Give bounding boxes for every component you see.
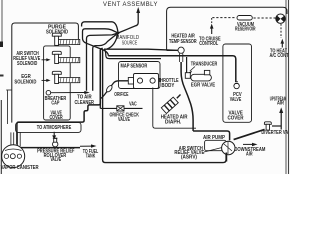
svg-text:SOLENOID: SOLENOID [14,79,36,85]
svg-text:CAP: CAP [51,101,59,107]
svg-text:EGR VALVE: EGR VALVE [191,83,216,89]
svg-text:VALVE: VALVE [118,117,130,123]
svg-text:TEMP SENSOR: TEMP SENSOR [169,39,197,45]
svg-text:VAC: VAC [129,102,137,108]
svg-text:ORIFICE: ORIFICE [114,92,129,98]
svg-text:A/C CONT: A/C CONT [270,53,289,59]
svg-text:DIAPH.: DIAPH. [165,120,182,126]
svg-text:CONTROL: CONTROL [199,41,218,47]
svg-text:TO ATMOSPHERE: TO ATMOSPHERE [37,125,72,131]
svg-text:VENT ASSEMBLY: VENT ASSEMBLY [103,1,158,8]
svg-text:RESERVOIR: RESERVOIR [235,26,256,32]
svg-text:COVER: COVER [50,115,63,121]
svg-text:AIR: AIR [277,100,284,106]
svg-text:VALVE: VALVE [50,157,61,163]
svg-text:VALVE: VALVE [230,97,242,103]
svg-text:MAP SENSOR: MAP SENSOR [121,63,148,69]
svg-text:SOURCE: SOURCE [122,41,138,47]
svg-text:AIR: AIR [246,151,253,157]
svg-text:DIVERTER VA: DIVERTER VA [261,130,288,136]
svg-text:(ASRV): (ASRV) [181,155,197,161]
svg-text:TANK: TANK [86,154,96,160]
svg-text:COVER: COVER [228,116,244,122]
svg-text:SOLENOID: SOLENOID [17,61,38,67]
svg-text:BODY: BODY [161,83,175,89]
svg-text:VAPOR CANISTER: VAPOR CANISTER [1,165,39,171]
